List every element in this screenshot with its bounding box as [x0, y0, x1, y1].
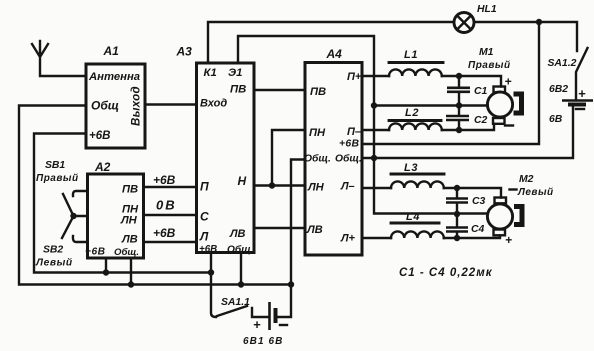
- svg-text:ПВ: ПВ: [230, 84, 246, 96]
- svg-text:Общ: Общ: [91, 99, 119, 113]
- svg-text:ЛН: ЛН: [120, 215, 138, 227]
- svg-text:П: П: [200, 180, 209, 194]
- svg-text:L3: L3: [404, 162, 418, 174]
- svg-text:ЛВ: ЛВ: [229, 228, 246, 240]
- svg-text:ПВ: ПВ: [122, 184, 138, 196]
- svg-text:Э1: Э1: [228, 67, 242, 79]
- svg-text:+6В: +6В: [153, 173, 176, 187]
- svg-text:Вход: Вход: [200, 98, 227, 110]
- svg-text:Левый: Левый: [517, 187, 554, 198]
- svg-text:Общ.: Общ.: [227, 244, 254, 256]
- svg-text:П–: П–: [347, 126, 361, 138]
- svg-text:ЛН: ЛН: [307, 182, 325, 194]
- svg-text:6В1 6В: 6В1 6В: [243, 336, 284, 347]
- svg-text:+6В: +6В: [153, 226, 176, 240]
- svg-text:L4: L4: [406, 211, 420, 223]
- svg-text:П+: П+: [347, 71, 362, 83]
- svg-text:6В2: 6В2: [549, 84, 568, 95]
- svg-text:Правый: Правый: [468, 60, 511, 71]
- svg-text:А2: А2: [94, 160, 111, 174]
- svg-text:Общ.: Общ.: [335, 153, 362, 165]
- svg-text:А1: А1: [103, 44, 120, 58]
- svg-text:С1: С1: [474, 86, 488, 97]
- svg-text:SВ1: SВ1: [45, 160, 65, 171]
- svg-text:Левый: Левый: [35, 258, 73, 269]
- svg-text:С4: С4: [471, 224, 485, 235]
- svg-text:L1: L1: [404, 49, 418, 61]
- svg-text:ПВ: ПВ: [310, 86, 326, 98]
- svg-text:С2: С2: [474, 115, 488, 126]
- svg-text:К1: К1: [204, 67, 217, 79]
- svg-text:+6В: +6В: [199, 244, 217, 255]
- svg-text:+6В: +6В: [339, 139, 359, 150]
- svg-text:Н: Н: [238, 174, 247, 188]
- svg-text:L2: L2: [405, 107, 419, 119]
- svg-text:+: +: [505, 233, 512, 247]
- svg-text:Правый: Правый: [36, 173, 79, 184]
- svg-text:А3: А3: [176, 45, 193, 59]
- svg-text:0В: 0В: [156, 198, 177, 213]
- svg-text:А4: А4: [326, 47, 343, 61]
- svg-text:М2: М2: [519, 174, 534, 185]
- svg-text:ЛВ: ЛВ: [306, 224, 323, 236]
- svg-text:ПН: ПН: [309, 127, 326, 139]
- svg-text:С3: С3: [472, 196, 486, 207]
- svg-text:SВ2: SВ2: [43, 245, 63, 256]
- svg-text:С1 - С4 0,22мк: С1 - С4 0,22мк: [399, 267, 493, 279]
- svg-text:С: С: [200, 210, 209, 224]
- svg-text:М1: М1: [479, 47, 494, 58]
- svg-text:Л–: Л–: [340, 181, 355, 193]
- svg-text:6В: 6В: [549, 114, 563, 125]
- svg-text:+: +: [505, 75, 512, 89]
- svg-text:Л+: Л+: [340, 233, 356, 245]
- svg-text:Общ.: Общ.: [114, 247, 139, 258]
- svg-text:SА1.1: SА1.1: [221, 297, 250, 308]
- svg-text:+6В: +6В: [85, 247, 105, 258]
- svg-text:Общ.: Общ.: [304, 153, 331, 165]
- svg-text:+6В: +6В: [89, 130, 110, 142]
- svg-text:SА1.2: SА1.2: [548, 58, 577, 69]
- svg-text:HL1: HL1: [477, 4, 497, 15]
- svg-text:+: +: [253, 317, 261, 332]
- svg-text:Выход: Выход: [131, 86, 143, 126]
- svg-text:Антенна: Антенна: [88, 71, 140, 83]
- svg-text:Л: Л: [199, 230, 209, 244]
- svg-text:+: +: [578, 86, 586, 101]
- svg-text:ЛВ: ЛВ: [121, 234, 138, 246]
